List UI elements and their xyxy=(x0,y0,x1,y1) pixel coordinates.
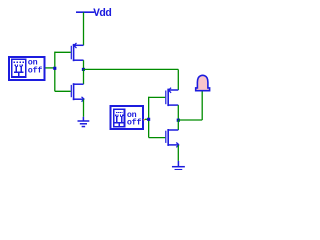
wire Q4 source down to ground xyxy=(177,145,179,161)
ground GND2 xyxy=(172,161,185,170)
node IN1 junction xyxy=(53,67,56,70)
wire input node 2 to Q3 gate xyxy=(149,96,166,98)
node OUT1 junction xyxy=(82,68,85,71)
button B2 icon xyxy=(115,112,124,127)
transistor Q1 (PMOS) xyxy=(71,43,83,61)
wire Q3 drain down to output node OUT2 xyxy=(177,105,179,120)
wire IN1 vertical joining gates of Q1 and Q2 xyxy=(54,52,56,92)
Vdd power rail xyxy=(76,11,94,13)
node IN2 junction xyxy=(147,118,150,121)
wire across to OUT2 xyxy=(178,119,202,121)
LED D1 output indicator xyxy=(196,75,210,90)
svg-text:off: off xyxy=(127,118,142,128)
button B1 (on/off input switch) xyxy=(9,57,45,80)
ground GND1 xyxy=(78,117,90,127)
pin state dot of button B2 xyxy=(143,119,145,120)
wire input node to Q1 gate xyxy=(55,51,71,53)
wire button B1 output to input node IN1 xyxy=(45,67,54,69)
wire LED cathode down xyxy=(201,92,203,121)
wire down to PMOS Q3 source xyxy=(177,69,179,90)
wire Q1 drain down to output node OUT1 xyxy=(83,60,85,69)
wire IN2 vertical joining gates of Q3 and Q4 xyxy=(148,97,150,138)
button B1 icon xyxy=(14,62,24,77)
wire button B2 output to input node IN2 xyxy=(145,118,149,120)
wire Vdd down to PMOS Q1 source xyxy=(83,12,85,45)
button B2 (on/off input switch) xyxy=(111,106,144,129)
svg-text:off: off xyxy=(28,65,43,75)
wire OUT1 across to stage 2 xyxy=(84,68,179,70)
wire Q2 source down to ground xyxy=(83,99,85,116)
transistor Q2 (NMOS) xyxy=(71,83,84,101)
wire input node 2 to Q4 gate xyxy=(149,137,166,139)
wire OUT2 down to NMOS Q4 drain xyxy=(177,120,179,130)
wire OUT1 down to NMOS Q2 drain xyxy=(83,69,85,84)
transistor Q4 (NMOS) xyxy=(166,129,179,147)
transistor Q3 (PMOS) xyxy=(166,88,179,106)
svg-text:Vdd: Vdd xyxy=(93,8,111,20)
node OUT2 junction xyxy=(177,119,180,122)
wire input node to Q2 gate xyxy=(55,90,71,92)
